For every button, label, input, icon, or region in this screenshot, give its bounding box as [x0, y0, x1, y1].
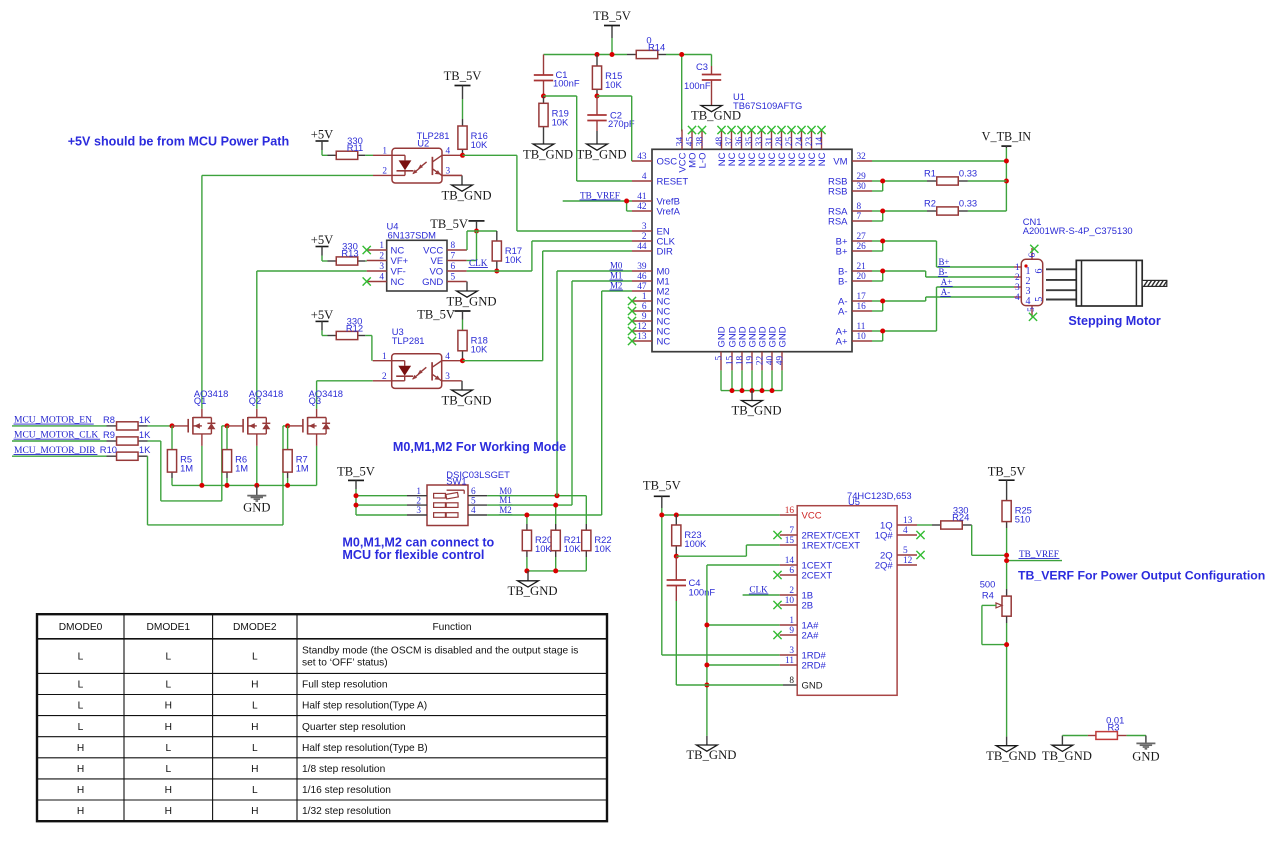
label R9 value 1K	[103, 429, 151, 440]
power symbol TB_GND	[441, 381, 491, 408]
power symbol +5V	[311, 128, 334, 151]
note TB_VERF For Power Output Configuration	[1018, 569, 1265, 583]
svg-text:DMODE1: DMODE1	[147, 622, 191, 633]
svg-text:20: 20	[857, 272, 867, 282]
IC U1 TB67S109AFTG	[652, 149, 852, 351]
svg-text:R3: R3	[1108, 721, 1120, 732]
net label A-	[940, 287, 950, 297]
resistor R21	[551, 530, 581, 554]
svg-text:17: 17	[857, 292, 867, 302]
no-connect U5 right pins	[916, 531, 924, 559]
svg-text:100nF: 100nF	[553, 78, 580, 89]
svg-text:44: 44	[637, 242, 647, 252]
svg-text:2B: 2B	[802, 600, 814, 611]
resistor R6	[222, 450, 248, 474]
capacitor C4 leads	[675, 556, 677, 601]
svg-text:1/8 step resolution: 1/8 step resolution	[302, 764, 385, 775]
svg-text:+5V should be from MCU Power P: +5V should be from MCU Power Path	[68, 135, 289, 149]
svg-text:16: 16	[785, 506, 795, 516]
pin numbers U5	[785, 506, 913, 686]
svg-text:26: 26	[857, 242, 867, 252]
svg-text:NC: NC	[391, 277, 405, 288]
svg-text:31: 31	[765, 137, 775, 147]
resistor R20 leads	[526, 524, 528, 571]
label Q2 ref/value	[249, 388, 283, 406]
svg-text:6: 6	[789, 566, 794, 576]
svg-text:22: 22	[756, 355, 766, 365]
power symbol TB_GND	[523, 144, 573, 162]
junction R23-C4	[674, 554, 679, 559]
resistor R20	[522, 530, 552, 554]
label U3 ref/value	[392, 326, 425, 346]
junction VM	[1004, 159, 1009, 184]
wire +5V to R12	[322, 331, 328, 336]
svg-text:11: 11	[857, 322, 866, 332]
svg-text:2: 2	[382, 372, 387, 382]
resistor R6 leads	[226, 426, 228, 486]
svg-text:10K: 10K	[605, 79, 622, 90]
svg-text:TB_GND: TB_GND	[441, 394, 491, 408]
svg-text:5: 5	[471, 496, 476, 506]
svg-text:27: 27	[857, 232, 867, 242]
svg-text:510: 510	[1015, 514, 1031, 525]
svg-text:1/16 step resolution: 1/16 step resolution	[302, 785, 391, 796]
svg-text:1: 1	[789, 616, 794, 626]
svg-text:SW1: SW1	[446, 476, 466, 487]
svg-text:14: 14	[815, 137, 825, 147]
power symbol GND	[1132, 736, 1159, 764]
svg-text:U2: U2	[417, 138, 429, 149]
wire net OSC	[597, 96, 632, 161]
svg-text:270pF: 270pF	[608, 118, 635, 129]
wire net M0 row	[487, 496, 586, 524]
svg-text:10K: 10K	[535, 543, 552, 554]
wire net GND bus mosfets	[172, 446, 317, 486]
wire net 1REXT	[676, 545, 779, 556]
wire C4 to gnd rail	[675, 601, 677, 685]
svg-text:+5V: +5V	[311, 128, 334, 142]
svg-text:A+: A+	[941, 277, 952, 287]
svg-text:4: 4	[471, 506, 476, 516]
svg-text:TB_VERF For Power Output Confi: TB_VERF For Power Output Configuration	[1018, 569, 1265, 583]
svg-text:R24: R24	[952, 512, 969, 523]
svg-text:TB_VREF: TB_VREF	[1019, 549, 1059, 559]
svg-text:A-: A-	[941, 287, 950, 297]
wire TB_5V to R18	[462, 320, 464, 331]
table DMODE function	[37, 614, 607, 821]
wire net CLK	[467, 241, 632, 271]
svg-text:32: 32	[857, 152, 867, 162]
svg-text:R1: R1	[924, 168, 936, 179]
capacitor C2 leads	[596, 96, 598, 144]
svg-text:15: 15	[785, 536, 795, 546]
power symbol TB_5V	[417, 308, 470, 322]
junction RSB	[880, 179, 885, 184]
svg-text:7: 7	[857, 212, 862, 222]
svg-text:RSB: RSB	[828, 186, 848, 197]
svg-text:39: 39	[637, 262, 647, 272]
svg-text:3: 3	[379, 262, 384, 272]
svg-text:TB_5V: TB_5V	[988, 464, 1026, 478]
svg-text:M0,M1,M2 For Working Mode: M0,M1,M2 For Working Mode	[393, 440, 566, 454]
svg-text:B+: B+	[836, 246, 848, 257]
capacitor C1	[534, 69, 580, 89]
no-connect CN1 pins 5,6	[1029, 245, 1039, 321]
wire net GND row U5	[676, 684, 783, 686]
junction U1 gnd bus	[730, 388, 775, 393]
svg-text:2A#: 2A#	[802, 630, 820, 641]
svg-text:2: 2	[642, 232, 647, 242]
svg-text:R14: R14	[648, 42, 665, 53]
wire net U3 cathode to Q3 drain	[317, 381, 373, 409]
svg-text:4: 4	[1026, 296, 1031, 307]
svg-text:3: 3	[789, 646, 794, 656]
svg-text:M0: M0	[610, 260, 623, 270]
capacitor C2	[587, 110, 635, 130]
label CN1 ref/value	[1023, 216, 1133, 236]
svg-text:L: L	[165, 764, 171, 775]
svg-text:H: H	[165, 806, 172, 817]
svg-text:43: 43	[637, 152, 647, 162]
power symbol GND	[243, 485, 270, 514]
resistor R23	[672, 525, 707, 549]
svg-text:2Q#: 2Q#	[875, 560, 894, 571]
resistor R1	[937, 177, 959, 185]
svg-text:TB_5V: TB_5V	[593, 9, 631, 23]
junction A-	[880, 299, 885, 304]
wire U4 VCC/VE rail	[467, 231, 497, 261]
power symbol V_TB_IN	[982, 130, 1032, 149]
svg-text:TB_GND: TB_GND	[731, 404, 781, 418]
wire net M2 row	[487, 515, 602, 524]
power symbol TB_GND	[691, 106, 741, 123]
IC U4 6N137SDM	[367, 240, 467, 291]
label R12 value 330	[346, 316, 363, 334]
no-connect U4 pins 1,4	[363, 246, 371, 286]
svg-text:8: 8	[857, 202, 862, 212]
svg-text:H: H	[77, 785, 84, 796]
wire TB_5V to SW1 rows	[356, 489, 407, 515]
svg-text:1Q#: 1Q#	[875, 530, 894, 541]
svg-text:1: 1	[382, 147, 387, 157]
svg-text:R12: R12	[346, 323, 363, 334]
power symbol TB_GND	[576, 144, 626, 162]
pin numbers U4	[379, 241, 455, 283]
svg-text:100nF: 100nF	[684, 80, 711, 91]
wire R24 to TB_VREF	[972, 525, 1007, 555]
svg-text:2: 2	[382, 167, 387, 177]
wire net A+	[872, 287, 1014, 341]
wire net B+	[872, 241, 1014, 267]
svg-text:H: H	[251, 722, 258, 733]
svg-text:10: 10	[785, 596, 795, 606]
resistor R10 leads	[107, 455, 148, 457]
svg-text:L: L	[252, 743, 258, 754]
svg-text:Q1: Q1	[194, 395, 207, 406]
svg-text:10K: 10K	[564, 543, 581, 554]
svg-text:L: L	[165, 652, 171, 663]
svg-text:5: 5	[1027, 307, 1037, 312]
connector CN1	[1014, 248, 1043, 317]
transistor Q2	[243, 409, 270, 446]
net label M1 (U1)	[610, 270, 623, 280]
note M0,M1,M2 can connect to MCU for flexible control	[342, 536, 494, 562]
svg-text:TB_GND: TB_GND	[986, 749, 1036, 763]
wire net RSA	[872, 211, 1006, 221]
svg-text:H: H	[165, 722, 172, 733]
junction SW rows	[524, 493, 559, 517]
pin names U5	[802, 510, 894, 691]
svg-text:1: 1	[642, 292, 647, 302]
pin leads U5	[780, 515, 917, 665]
net label TB_VREF (R25)	[1019, 549, 1060, 559]
junction A+	[880, 329, 885, 334]
svg-text:GND: GND	[716, 326, 727, 347]
transistor Q1	[188, 409, 215, 446]
svg-text:M1: M1	[499, 495, 511, 505]
resistor R7	[283, 450, 309, 474]
svg-text:DIR: DIR	[657, 246, 674, 257]
svg-text:H: H	[165, 785, 172, 796]
wire net EN	[463, 155, 633, 231]
svg-text:0.33: 0.33	[959, 168, 977, 179]
note Stepping Motor	[1068, 314, 1160, 328]
wire net M0 column	[557, 271, 632, 496]
wire net MCU_MOTOR_EN stub	[12, 425, 107, 427]
wire R4 bottom to gnd	[1006, 623, 1008, 737]
power symbol TB_5V	[444, 69, 482, 86]
svg-text:H: H	[251, 806, 258, 817]
resistor R3	[1096, 732, 1118, 740]
power symbol TB_GND	[446, 282, 496, 309]
svg-text:24: 24	[795, 137, 805, 147]
power symbol TB_5V	[337, 465, 375, 481]
junction mosfet bus	[199, 483, 290, 488]
svg-text:DMODE2: DMODE2	[233, 622, 277, 633]
svg-text:M1: M1	[610, 270, 622, 280]
svg-text:1: 1	[1015, 263, 1020, 273]
no-connect U1 left NC pins	[628, 297, 636, 345]
svg-text:L: L	[78, 701, 84, 712]
junction R17-VO	[494, 269, 499, 274]
svg-text:R9: R9	[103, 429, 115, 440]
note +5V should be from MCU Power Path	[68, 135, 289, 149]
svg-text:R13: R13	[341, 248, 358, 259]
svg-text:7: 7	[451, 252, 456, 262]
wire R3 left stub	[1061, 736, 1063, 746]
resistor R3 leads	[1088, 735, 1127, 737]
svg-text:8: 8	[789, 676, 794, 686]
junction MOSFET gates	[170, 423, 291, 428]
svg-text:10K: 10K	[594, 543, 611, 554]
resistor R8 leads	[107, 425, 148, 427]
svg-text:A+: A+	[836, 336, 848, 347]
wire TB_5V to R16	[462, 99, 464, 119]
svg-text:NC: NC	[657, 336, 671, 347]
svg-text:10K: 10K	[505, 254, 522, 265]
svg-text:L: L	[165, 743, 171, 754]
resistor R10	[117, 452, 139, 460]
resistor R11	[336, 151, 358, 159]
svg-text:5: 5	[451, 273, 456, 283]
wire R4 wiper	[982, 605, 1007, 644]
wire net RSB	[872, 181, 927, 191]
svg-text:30: 30	[857, 182, 867, 192]
wire net TB_VREF column	[1007, 528, 1062, 589]
label Q1 ref/value	[194, 388, 228, 406]
resistor R5	[167, 450, 193, 474]
svg-text:41: 41	[637, 192, 647, 202]
resistor R9	[117, 437, 139, 445]
resistor R13	[336, 257, 358, 265]
svg-text:46: 46	[637, 272, 647, 282]
power stub TB_5V top	[611, 26, 613, 38]
svg-text:1K: 1K	[139, 414, 151, 425]
resistor R14	[636, 50, 658, 58]
power symbol +5V	[311, 308, 334, 330]
svg-text:TB_GND: TB_GND	[446, 295, 496, 309]
svg-text:TB_5V: TB_5V	[643, 479, 681, 493]
svg-text:V_TB_IN: V_TB_IN	[982, 130, 1032, 144]
svg-text:3: 3	[416, 506, 421, 516]
svg-text:37: 37	[725, 137, 735, 147]
svg-text:GND: GND	[777, 326, 788, 347]
resistor R1 leads	[927, 180, 968, 182]
power symbol TB_GND	[686, 736, 736, 762]
wire net U4 VF- to Q2 drain	[257, 271, 367, 409]
svg-text:1K: 1K	[139, 429, 151, 440]
optocoupler U3	[373, 354, 462, 389]
svg-text:48: 48	[715, 137, 725, 147]
svg-text:U5: U5	[848, 496, 860, 507]
svg-text:GND: GND	[802, 680, 823, 691]
wire net TB_GND bus sw	[527, 570, 586, 572]
svg-text:7: 7	[789, 526, 794, 536]
net label M0 (SW1)	[499, 486, 512, 496]
svg-text:L: L	[78, 680, 84, 691]
net label B-	[938, 267, 948, 277]
svg-text:TB_5V: TB_5V	[430, 217, 468, 231]
pin numbers U3	[382, 352, 450, 382]
wire R13 to U4 pin 2	[365, 260, 366, 262]
power stub TB_5V U4	[476, 221, 478, 231]
wire net MCU_MOTOR_DIR stub	[12, 455, 107, 457]
wire net MCU_MOTOR_CLK stub	[12, 440, 107, 442]
svg-text:H: H	[251, 764, 258, 775]
power symbol TB_5V	[430, 217, 484, 231]
resistor R12	[336, 331, 358, 339]
junction sw bus	[524, 568, 558, 573]
svg-text:16: 16	[857, 302, 867, 312]
svg-text:5: 5	[903, 546, 908, 556]
svg-text:B+: B+	[939, 257, 950, 267]
net label MCU_MOTOR_DIR	[14, 446, 98, 456]
svg-text:TLP281: TLP281	[392, 335, 425, 346]
wire net B-	[872, 271, 1014, 281]
svg-text:4: 4	[446, 147, 451, 157]
svg-text:2CEXT: 2CEXT	[802, 570, 833, 581]
wire net U2 cathode to Q1 drain	[202, 175, 373, 409]
svg-text:6N137SDM: 6N137SDM	[388, 230, 437, 241]
power stub / R25 leads	[1006, 480, 1008, 528]
svg-text:H: H	[165, 701, 172, 712]
capacitor C1 leads	[543, 55, 545, 97]
resistor R23 leads	[675, 515, 677, 556]
svg-text:VCC: VCC	[802, 510, 822, 521]
svg-text:L: L	[165, 680, 171, 691]
junction 1CEXT column	[704, 623, 709, 688]
wire net V_TB_IN	[872, 148, 1006, 211]
wire gate leads	[172, 425, 303, 427]
wire net TB_5V top rail	[544, 38, 712, 131]
resistor R21 leads	[555, 524, 557, 571]
junction U4 VCC rail	[474, 229, 479, 234]
switch SW1 DSIC03LSGET	[407, 485, 487, 526]
label U1 ref/value	[733, 91, 802, 111]
net label M0 (U1)	[610, 260, 623, 270]
svg-text:R10: R10	[100, 444, 117, 455]
svg-text:VM: VM	[833, 156, 847, 167]
svg-text:TB_GND: TB_GND	[686, 748, 736, 762]
svg-text:VCC: VCC	[423, 245, 443, 256]
pin leads U1	[632, 130, 872, 371]
svg-text:TB_5V: TB_5V	[337, 465, 375, 479]
svg-text:DMODE0: DMODE0	[59, 622, 103, 633]
wire net MOTOR_EN to Q1 gate	[148, 425, 173, 427]
junction TB_VREF	[624, 199, 629, 204]
power stub / R16 leads	[462, 86, 464, 156]
resistor R15 leads	[596, 55, 598, 97]
junction SW1 left	[354, 493, 359, 507]
svg-text:L-O: L-O	[697, 153, 708, 169]
label R3 value 0.01	[1106, 715, 1124, 733]
power symbol TB_5V	[593, 9, 631, 26]
junction top rail	[595, 52, 685, 57]
stepping motor graphic	[1046, 260, 1167, 306]
junction U5 VCC rail	[659, 513, 679, 518]
note M0,M1,M2 For Working Mode	[393, 440, 566, 454]
svg-text:3: 3	[445, 372, 450, 382]
junction R4	[1004, 642, 1009, 647]
svg-text:Function: Function	[432, 622, 471, 633]
svg-text:H: H	[77, 806, 84, 817]
label R13 value 330	[341, 241, 358, 259]
svg-text:A2001WR-S-4P_C375130: A2001WR-S-4P_C375130	[1023, 225, 1133, 236]
wire U5 GND pin lead	[783, 684, 797, 686]
net label M1 (SW1)	[499, 495, 512, 505]
label R4 ref/value	[980, 579, 996, 601]
capacitor C3	[684, 61, 721, 91]
svg-text:TB_GND: TB_GND	[576, 148, 626, 162]
svg-text:Half step resolution(Type A): Half step resolution(Type A)	[302, 701, 427, 712]
wire U2 pin3 to gnd	[0, 0, 1, 1]
no-connect U5 left pins	[773, 531, 781, 639]
label TLP281 ref/value	[417, 130, 450, 149]
svg-text:L: L	[252, 652, 258, 663]
svg-text:47: 47	[637, 282, 647, 292]
svg-text:10K: 10K	[471, 343, 488, 354]
resistor R13 leads	[328, 260, 366, 262]
svg-text:GND: GND	[243, 501, 270, 515]
svg-text:25: 25	[785, 137, 795, 147]
wire net TB_GND U1 bottom	[721, 370, 782, 390]
svg-text:42: 42	[637, 202, 647, 212]
svg-text:L: L	[252, 701, 258, 712]
svg-text:Q2: Q2	[249, 395, 262, 406]
svg-text:34: 34	[676, 137, 686, 147]
svg-text:RSA: RSA	[828, 216, 848, 227]
svg-text:L: L	[252, 785, 258, 796]
